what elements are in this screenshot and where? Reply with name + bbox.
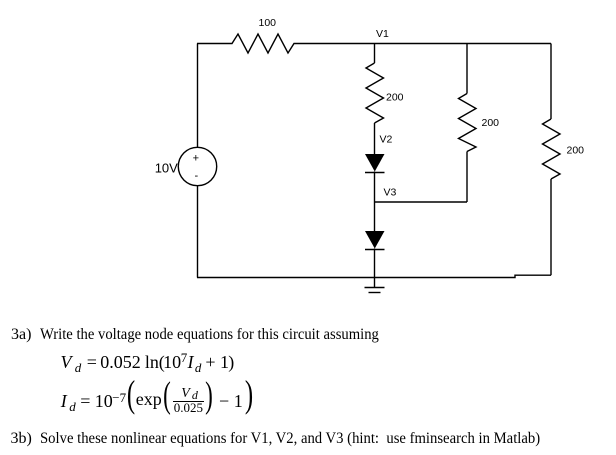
svg-text:-: -: [195, 170, 199, 182]
svg-text:10V: 10V: [155, 161, 178, 176]
svg-text:V1: V1: [376, 28, 389, 40]
svg-text:200: 200: [567, 145, 585, 157]
svg-text:100: 100: [259, 17, 277, 29]
svg-text:V3: V3: [384, 187, 397, 199]
svg-text:V2: V2: [380, 134, 393, 146]
svg-text:+: +: [193, 152, 199, 164]
svg-text:200: 200: [482, 117, 500, 129]
svg-text:200: 200: [386, 92, 404, 104]
